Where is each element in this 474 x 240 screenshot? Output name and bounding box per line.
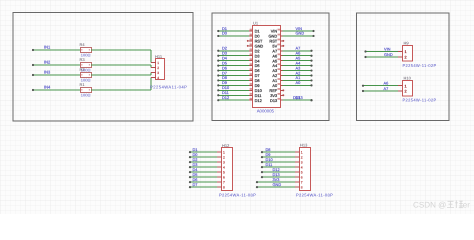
svg-text:R3: R3 xyxy=(80,57,86,62)
connector H10 xyxy=(398,81,413,97)
U1 left pin D7 stub xyxy=(249,73,253,75)
svg-text:2: 2 xyxy=(157,66,159,70)
wire net D9 to H13 pin 2 xyxy=(261,156,295,158)
wire net D12 to H13 pin 5 xyxy=(261,171,295,173)
svg-text:D13: D13 xyxy=(270,98,277,103)
svg-text:6: 6 xyxy=(301,176,303,180)
wire IN2 right segment xyxy=(91,64,151,66)
wire IN2 left segment xyxy=(32,64,80,66)
sheet frame right module xyxy=(357,13,450,121)
wire net 3V3 to H13 pin 7 xyxy=(256,181,295,183)
svg-text:2: 2 xyxy=(301,156,303,160)
wire net A6 from U1 xyxy=(283,55,313,57)
svg-text:R1: R1 xyxy=(80,82,86,87)
svg-text:1: 1 xyxy=(405,84,407,88)
U1 right pin A6 stub xyxy=(278,53,283,55)
wire net A3 from U1 xyxy=(283,69,313,71)
svg-text:R4: R4 xyxy=(80,42,86,47)
wire net D6 to U1 xyxy=(217,69,249,71)
wire net D5 to U1 xyxy=(217,65,249,67)
wire net D10 to H13 pin 3 xyxy=(261,161,295,163)
wire net D12 to U1 xyxy=(217,99,249,101)
svg-text:1: 1 xyxy=(301,151,303,155)
svg-text:IN3: IN3 xyxy=(44,69,51,74)
svg-text:D7: D7 xyxy=(193,182,198,187)
wire net D13 from U1 xyxy=(283,99,313,101)
svg-text:A000005: A000005 xyxy=(257,109,275,114)
connector H9 xyxy=(398,46,413,62)
svg-text:7: 7 xyxy=(223,181,225,185)
svg-text:IN4: IN4 xyxy=(44,84,51,89)
svg-text:P2254WA-11-08P: P2254WA-11-08P xyxy=(296,192,333,197)
wire net D2 to U1 xyxy=(217,50,249,52)
wire net A7 to H10 pin 2 xyxy=(362,90,398,92)
svg-text:er: er xyxy=(463,201,471,210)
U1 right pin A7 stub xyxy=(278,48,283,50)
svg-text:IN2: IN2 xyxy=(44,59,51,64)
svg-text:GND: GND xyxy=(296,31,305,36)
U1 right pin RST stub xyxy=(278,39,283,41)
svg-text:8: 8 xyxy=(223,186,225,190)
connector H13 xyxy=(295,148,311,191)
svg-text:P2254W-11-02P: P2254W-11-02P xyxy=(403,98,437,103)
wire IN1 vertical to H11 pin 1 xyxy=(151,50,156,63)
svg-text:4: 4 xyxy=(301,166,303,170)
wire IN4 left segment xyxy=(32,89,80,91)
svg-text:2: 2 xyxy=(223,156,225,160)
svg-text:D11: D11 xyxy=(266,162,273,167)
svg-text:A7: A7 xyxy=(384,86,389,91)
U1 right pin A0 stub xyxy=(278,83,283,85)
resistor R2 xyxy=(81,73,92,78)
U1 left pin D8 stub xyxy=(249,78,253,80)
U1 right pin A5 stub xyxy=(278,58,283,60)
U1 right pin A2 stub xyxy=(278,73,283,75)
svg-text:A0: A0 xyxy=(296,80,302,85)
U1 left pin D5 stub xyxy=(249,63,253,65)
svg-text:R2: R2 xyxy=(80,67,86,72)
wire net D0 to H12 pin 2 xyxy=(189,156,217,158)
wire net D3 to H12 pin 4 xyxy=(189,166,217,168)
wire net D8 to H13 pin 1 xyxy=(261,151,295,153)
watermark CSDN xyxy=(413,201,470,210)
svg-text:4: 4 xyxy=(157,76,159,80)
U1 unconnected right pin RST mark xyxy=(282,40,284,42)
resistor R4 xyxy=(81,48,92,53)
wire IN3 right segment xyxy=(91,74,151,76)
svg-text:U1: U1 xyxy=(253,21,259,26)
svg-text:6: 6 xyxy=(223,176,225,180)
wire net D1 to U1 xyxy=(217,30,249,32)
U1 left pin D10 stub xyxy=(249,88,253,90)
U1 left pin D2 stub xyxy=(249,48,253,50)
connector H11 xyxy=(151,59,165,80)
svg-text:GND: GND xyxy=(384,52,393,57)
wire net D3 to U1 xyxy=(217,55,249,57)
svg-text:2: 2 xyxy=(405,90,407,94)
U1 left pin D9 stub xyxy=(249,83,253,85)
svg-text:A6: A6 xyxy=(384,81,389,86)
wire net A0 from U1 xyxy=(283,84,313,86)
svg-text:IN1: IN1 xyxy=(44,44,51,49)
resistor R1 xyxy=(81,88,92,93)
wire IN1 left segment xyxy=(32,49,80,51)
svg-text:VIN: VIN xyxy=(384,46,391,51)
U1 right pin A1 stub xyxy=(278,78,283,80)
wire net A2 from U1 xyxy=(283,74,313,76)
svg-text:H13: H13 xyxy=(300,142,308,147)
connector H12 xyxy=(217,148,232,191)
wire net D13 to H13 pin 6 xyxy=(261,176,295,178)
U1 left pin GND stub xyxy=(249,44,253,46)
wire net D13 from U1 xyxy=(283,99,313,101)
U1 right pin A4 stub xyxy=(278,63,283,65)
U1 unconnected right pin REF mark xyxy=(282,89,284,91)
svg-text:CSDN @: CSDN @ xyxy=(413,201,446,210)
svg-text:1: 1 xyxy=(405,50,407,54)
U1 right pin 5V stub xyxy=(278,44,283,46)
U1 left pin D12 stub xyxy=(249,98,253,100)
wire net GND to H13 pin 8 xyxy=(256,186,295,188)
svg-text:P2254WA11-04P: P2254WA11-04P xyxy=(150,84,187,89)
wire net VIN from U1 xyxy=(283,30,315,32)
U1 unconnected left pin RST mark xyxy=(247,40,249,42)
wire net D10 to U1 xyxy=(217,89,249,91)
wire net A1 from U1 xyxy=(283,79,313,81)
wire net D1 to H12 pin 1 xyxy=(189,151,217,153)
svg-text:5: 5 xyxy=(223,171,225,175)
U1 left pin D0 stub xyxy=(249,34,253,36)
svg-text:H11: H11 xyxy=(155,54,163,59)
wire IN1 right segment xyxy=(91,49,151,51)
wire net D0 to U1 xyxy=(217,35,249,37)
svg-text:D12: D12 xyxy=(222,95,229,100)
wire IN4 right segment xyxy=(91,89,151,91)
svg-text:4: 4 xyxy=(223,166,225,170)
svg-text:P2254W-11-02P: P2254W-11-02P xyxy=(403,63,437,68)
svg-text:D12: D12 xyxy=(255,98,262,103)
wire net D11 to U1 xyxy=(217,94,249,96)
svg-text:3: 3 xyxy=(301,161,303,165)
svg-text:3: 3 xyxy=(157,71,159,75)
sheet frame left module xyxy=(13,13,193,122)
U1 left pin D1 stub xyxy=(249,29,253,31)
U1 right pin D13 stub xyxy=(278,98,283,100)
wire net D7 to H12 pin 8 xyxy=(189,186,217,188)
wire net D11 to H13 pin 4 xyxy=(261,166,295,168)
wire IN4 vertical to H11 pin 4 xyxy=(151,78,156,91)
wire net D6 to H12 pin 7 xyxy=(189,181,217,183)
U1 left pin D6 stub xyxy=(249,68,253,70)
op-amp U1 Arduino Nano body xyxy=(253,26,281,108)
U1 right pin A3 stub xyxy=(278,68,283,70)
wire net A4 from U1 xyxy=(283,65,313,67)
sheet frame center module xyxy=(212,13,329,121)
wire net D9 to U1 xyxy=(217,84,249,86)
U1 right pin GND stub xyxy=(278,34,283,36)
wire net GND to H9 pin 2 xyxy=(364,56,398,58)
wire net A7 from U1 xyxy=(283,50,313,52)
wire net D8 to U1 xyxy=(217,79,249,81)
wire net A5 from U1 xyxy=(283,60,313,62)
svg-text:H10: H10 xyxy=(404,75,412,80)
svg-text:5: 5 xyxy=(301,171,303,175)
wire net GND from U1 xyxy=(283,35,315,37)
svg-text:H12: H12 xyxy=(222,143,230,148)
wire net D4 to H12 pin 5 xyxy=(189,171,217,173)
wire net D4 to U1 xyxy=(217,60,249,62)
U1 left pin D11 stub xyxy=(249,93,253,95)
wire IN3 left segment xyxy=(32,74,80,76)
svg-text:2: 2 xyxy=(405,56,407,60)
svg-text:D13: D13 xyxy=(293,95,300,100)
U1 right pin 3V3 stub xyxy=(278,93,283,95)
resistor R3 xyxy=(81,63,92,68)
wire net D2 to H12 pin 3 xyxy=(189,161,217,163)
wire net D7 to U1 xyxy=(217,74,249,76)
wire net D5 to H12 pin 6 xyxy=(189,176,217,178)
U1 unconnected right pin 5V mark xyxy=(282,45,284,47)
U1 left pin D3 stub xyxy=(249,53,253,55)
svg-text:GND: GND xyxy=(273,182,282,187)
U1 unconnected right pin 3V3 mark xyxy=(282,94,284,96)
svg-text:1: 1 xyxy=(157,61,159,65)
wire net VIN to H9 pin 1 xyxy=(364,50,398,52)
wire IN2 vertical to H11 pin 2 xyxy=(151,65,156,68)
wire IN3 vertical to H11 pin 3 xyxy=(151,73,156,76)
U1 left pin D4 stub xyxy=(249,58,253,60)
U1 left pin RST stub xyxy=(249,39,253,41)
svg-text:1: 1 xyxy=(223,151,225,155)
svg-text:8: 8 xyxy=(301,186,303,190)
svg-text:7: 7 xyxy=(301,181,303,185)
svg-text:D0: D0 xyxy=(222,31,228,36)
U1 unconnected left pin GND mark xyxy=(247,45,249,47)
svg-text:3: 3 xyxy=(223,161,225,165)
wire net A6 to H10 pin 1 xyxy=(362,85,398,87)
svg-text:100Ω: 100Ω xyxy=(81,93,91,98)
U1 right pin REF stub xyxy=(278,88,283,90)
svg-text:H9: H9 xyxy=(404,40,410,45)
U1 right pin VIN stub xyxy=(278,29,283,31)
svg-text:P2254WA-11-08P: P2254WA-11-08P xyxy=(219,192,256,197)
